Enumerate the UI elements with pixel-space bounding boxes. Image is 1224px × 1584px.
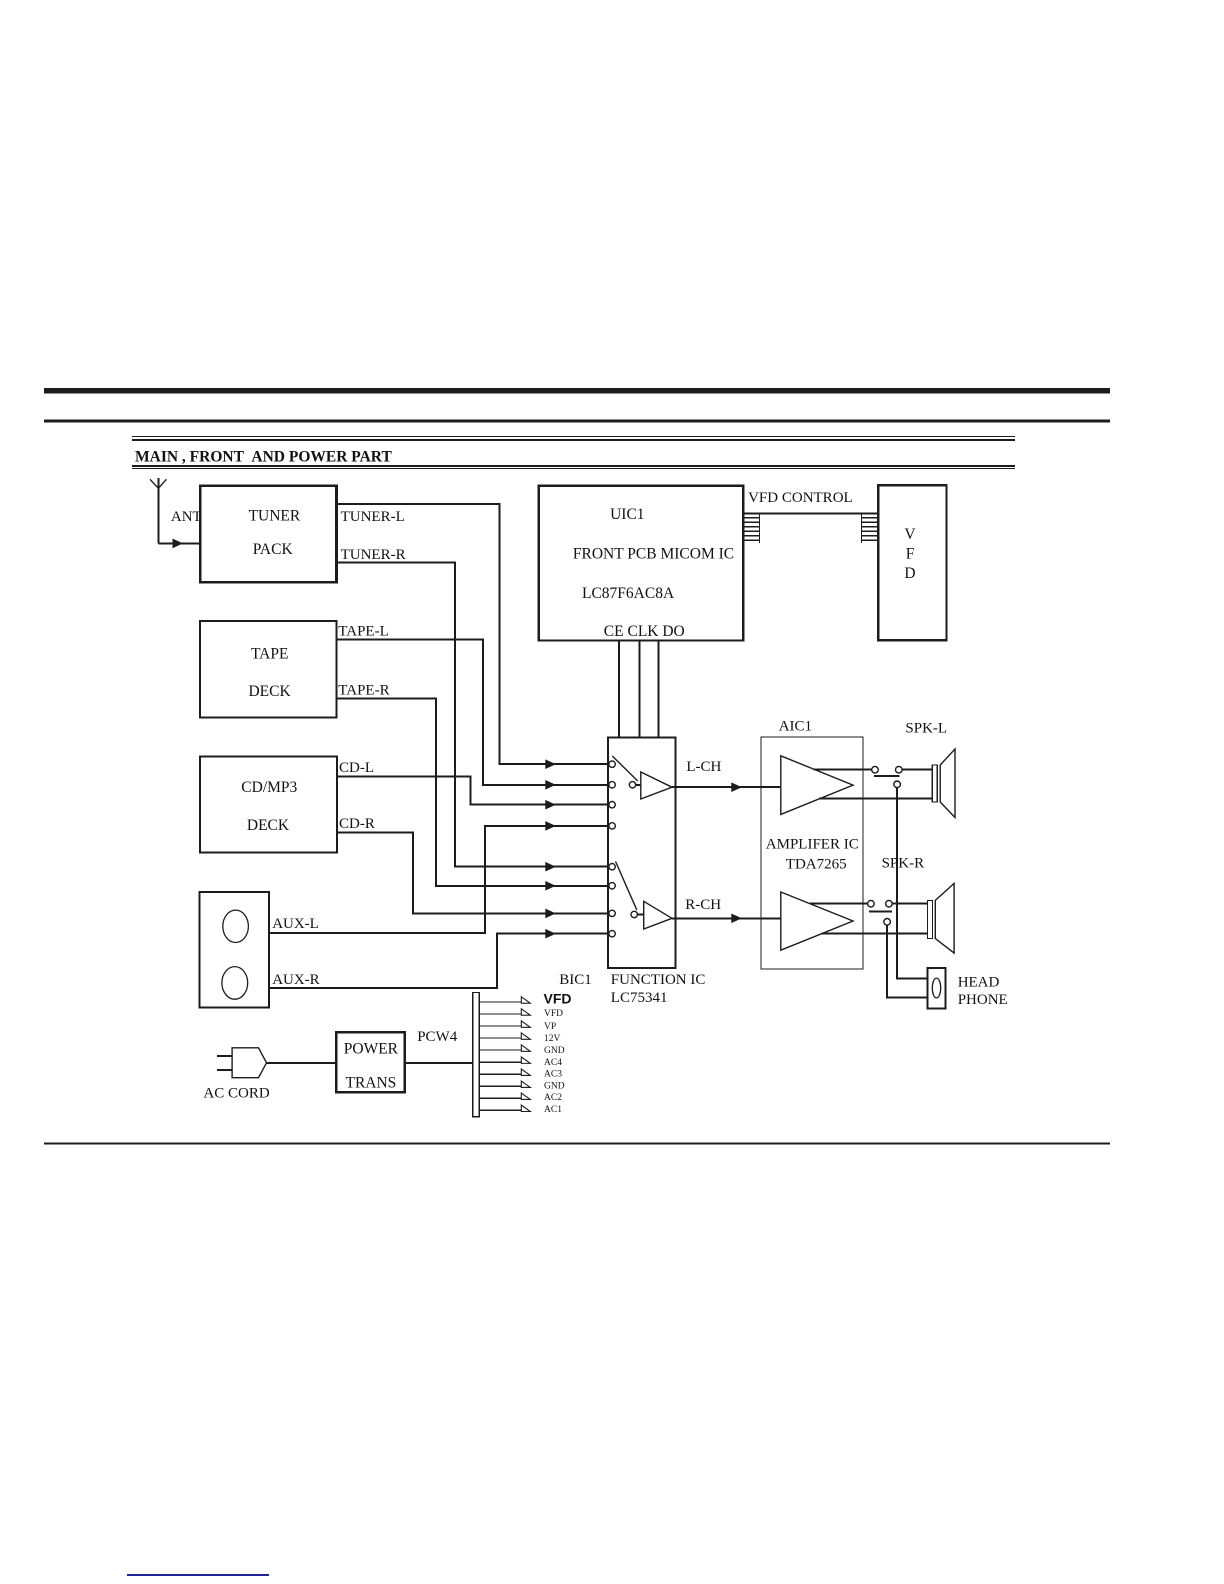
svg-text:AMPLIFER IC: AMPLIFER IC bbox=[766, 837, 859, 853]
svg-text:AC3: AC3 bbox=[544, 1070, 562, 1080]
svg-text:AUX-L: AUX-L bbox=[272, 916, 319, 932]
svg-text:GND: GND bbox=[544, 1082, 565, 1092]
svg-text:FRONT PCB MICOM IC: FRONT PCB MICOM IC bbox=[573, 546, 734, 563]
svg-text:TDA7265: TDA7265 bbox=[786, 857, 847, 873]
svg-text:PHONE: PHONE bbox=[958, 992, 1008, 1008]
svg-text:TAPE-R: TAPE-R bbox=[338, 683, 389, 699]
svg-text:12V: 12V bbox=[544, 1034, 561, 1044]
svg-text:MAIN , FRONT AND POWER PART: MAIN , FRONT AND POWER PART bbox=[135, 448, 392, 465]
svg-text:PCW4: PCW4 bbox=[417, 1029, 458, 1045]
svg-text:BIC1: BIC1 bbox=[559, 972, 592, 988]
svg-text:TRANS: TRANS bbox=[345, 1074, 396, 1091]
svg-text:FUNCTION IC: FUNCTION IC bbox=[611, 972, 706, 988]
svg-text:SPK-L: SPK-L bbox=[905, 720, 947, 736]
svg-text:AC CORD: AC CORD bbox=[203, 1085, 269, 1101]
svg-text:HEAD: HEAD bbox=[958, 975, 1000, 991]
svg-text:VFD CONTROL: VFD CONTROL bbox=[748, 490, 853, 506]
svg-text:AIC1: AIC1 bbox=[779, 719, 812, 735]
svg-text:LC87F6AC8A: LC87F6AC8A bbox=[582, 585, 675, 602]
svg-text:TAPE-L: TAPE-L bbox=[338, 624, 388, 640]
svg-text:TUNER-R: TUNER-R bbox=[341, 547, 406, 563]
svg-text:L-CH: L-CH bbox=[686, 759, 721, 775]
svg-text:PACK: PACK bbox=[253, 541, 294, 558]
svg-text:AC4: AC4 bbox=[544, 1058, 562, 1068]
svg-text:F: F bbox=[906, 546, 915, 563]
svg-text:D: D bbox=[904, 565, 915, 582]
svg-text:CD/MP3: CD/MP3 bbox=[241, 779, 297, 796]
svg-text:VP: VP bbox=[544, 1022, 556, 1032]
svg-text:LC75341: LC75341 bbox=[611, 990, 668, 1006]
svg-text:CD-L: CD-L bbox=[339, 760, 374, 776]
svg-text:SPK-R: SPK-R bbox=[882, 855, 925, 871]
svg-text:VFD: VFD bbox=[544, 1009, 563, 1019]
svg-text:CE CLK DO: CE CLK DO bbox=[604, 623, 685, 640]
svg-text:V: V bbox=[904, 526, 916, 543]
svg-text:UIC1: UIC1 bbox=[610, 506, 644, 523]
svg-text:AC2: AC2 bbox=[544, 1093, 562, 1103]
svg-text:CD-R: CD-R bbox=[339, 816, 375, 832]
svg-text:POWER: POWER bbox=[344, 1041, 399, 1058]
svg-text:VFD: VFD bbox=[544, 991, 572, 1007]
svg-text:TUNER-L: TUNER-L bbox=[341, 509, 405, 525]
svg-text:AC1: AC1 bbox=[544, 1105, 562, 1115]
svg-text:TUNER: TUNER bbox=[249, 508, 301, 525]
svg-text:ANT: ANT bbox=[171, 509, 202, 525]
svg-text:TAPE: TAPE bbox=[251, 645, 289, 662]
svg-text:R-CH: R-CH bbox=[685, 897, 721, 913]
svg-text:DECK: DECK bbox=[247, 817, 290, 834]
svg-text:DECK: DECK bbox=[248, 683, 291, 700]
svg-text:AUX-R: AUX-R bbox=[272, 972, 320, 988]
svg-text:GND: GND bbox=[544, 1046, 565, 1056]
